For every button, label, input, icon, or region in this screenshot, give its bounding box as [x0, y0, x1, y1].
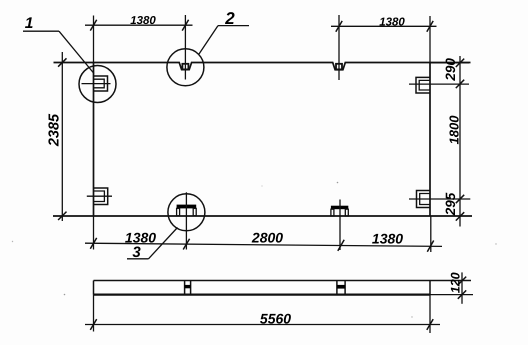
extension below elevation right [429, 295, 431, 333]
tick 120 bottom [458, 290, 466, 298]
svg-text:1380: 1380 [130, 15, 156, 27]
label 2 leader [199, 26, 218, 54]
bottom anchor hat x340 right leg [345, 209, 348, 216]
extension centerline anchor x339 [338, 15, 340, 80]
tick right chain y199 [456, 195, 464, 203]
svg-text:1: 1 [25, 15, 34, 32]
tick bottom row x186.4 [183, 239, 189, 250]
svg-text:2385: 2385 [47, 113, 63, 147]
tick right chain y62.8 [456, 59, 464, 67]
extension line above left corner [93, 16, 95, 63]
bottom dimension row line [85, 243, 442, 246]
panel left edge [93, 63, 95, 217]
bottom anchor hat x340 bar [331, 206, 348, 210]
channel bracket top-right inner [419, 80, 430, 90]
tick left dim bottom [58, 212, 66, 220]
elevation right edge [429, 281, 431, 295]
tick bottom row x93.5 [90, 238, 96, 249]
bottom anchor hat detail 3 bar [177, 205, 197, 209]
label 3 leader [149, 228, 178, 259]
tick 5560 right [427, 319, 433, 330]
detail circle 2 [167, 49, 204, 86]
extension below left edge [93, 216, 95, 250]
svg-text:1380: 1380 [125, 230, 156, 246]
left overall dimension line 2385 [61, 52, 63, 221]
dimension line 5560 [85, 324, 440, 326]
panel bottom edge [53, 215, 472, 217]
label 1 underline [23, 30, 59, 32]
elevation anchor H1 verticals [185, 281, 191, 295]
extension centerline anchor x185 [184, 15, 186, 80]
elevation anchor H2 verticals [337, 281, 345, 295]
tick 120 top [458, 277, 466, 285]
detail circle 3 [168, 194, 205, 231]
channel bracket bottom-left centerline [87, 195, 112, 197]
tick top row at x339 [336, 21, 342, 32]
svg-text:290: 290 [443, 58, 458, 82]
extension below elevation left [93, 295, 95, 332]
channel bracket bottom-right outer [417, 191, 431, 208]
dimension line top-left 1380 [85, 24, 193, 26]
channel bracket top-right centerline / extension [409, 83, 469, 85]
dimension line 120 [461, 272, 463, 303]
bottom anchor extension x340 [339, 200, 341, 251]
channel bracket bottom-left outer [94, 188, 108, 205]
svg-text:1800: 1800 [446, 115, 461, 145]
svg-text:1380: 1380 [379, 17, 405, 29]
label 3 underline [127, 258, 149, 260]
channel bracket top-left outer [94, 76, 108, 91]
tick top row at x185.4 [182, 20, 188, 31]
channel bracket top-left centerline [82, 83, 111, 85]
elevation top edge with right extension [94, 280, 472, 282]
svg-text:295: 295 [443, 192, 458, 216]
channel bracket bottom-left inner [94, 191, 105, 202]
panel right edge [429, 63, 431, 217]
channel bracket bottom-right centerline / extension [409, 198, 470, 200]
elevation anchor H1 band [185, 285, 191, 288]
anchor loop square top 1 [182, 64, 188, 70]
elevation bottom edge thick [94, 293, 431, 295]
tick top row at x430 [427, 21, 433, 32]
elevation bottom edge extension [430, 294, 473, 296]
channel bracket top-left inner [94, 79, 105, 88]
bottom anchor hat detail 3 right leg [193, 208, 196, 215]
tick bottom row x430.5 [427, 241, 433, 252]
scan speckles [337, 182, 339, 184]
extension line above right corner [429, 16, 431, 63]
extension below right edge [430, 216, 432, 252]
elevation anchor H2 band [337, 285, 345, 289]
channel bracket bottom-right inner [420, 194, 431, 205]
tick bottom row x341 [338, 240, 344, 251]
bottom anchor hat x340 left leg [331, 209, 334, 216]
svg-text:1380: 1380 [372, 231, 403, 247]
tick right chain y216.4 [456, 212, 464, 220]
anchor loop square top 2 [336, 64, 342, 70]
elevation left edge [93, 281, 95, 295]
right ext top edge [430, 62, 469, 64]
tick 5560 left [90, 319, 96, 330]
bottom anchor extension x186.4 [185, 192, 187, 249]
tick left dim top [58, 58, 66, 66]
detail circle 1 [79, 66, 116, 103]
bottom anchor hat detail 3 left leg [177, 208, 180, 215]
svg-text:120: 120 [448, 272, 462, 293]
tick right chain y83.9 [456, 80, 464, 88]
right chain dimension line [459, 56, 461, 227]
label 2 underline [218, 25, 249, 27]
panel top edge with anchor notches [54, 63, 471, 70]
tick top row at x93.5 [90, 20, 96, 31]
svg-text:5560: 5560 [260, 310, 291, 326]
svg-text:2800: 2800 [251, 230, 283, 246]
dimension line top-right 1380 [331, 25, 437, 27]
channel bracket top-right outer [416, 77, 430, 93]
label 1 leader [59, 31, 94, 73]
